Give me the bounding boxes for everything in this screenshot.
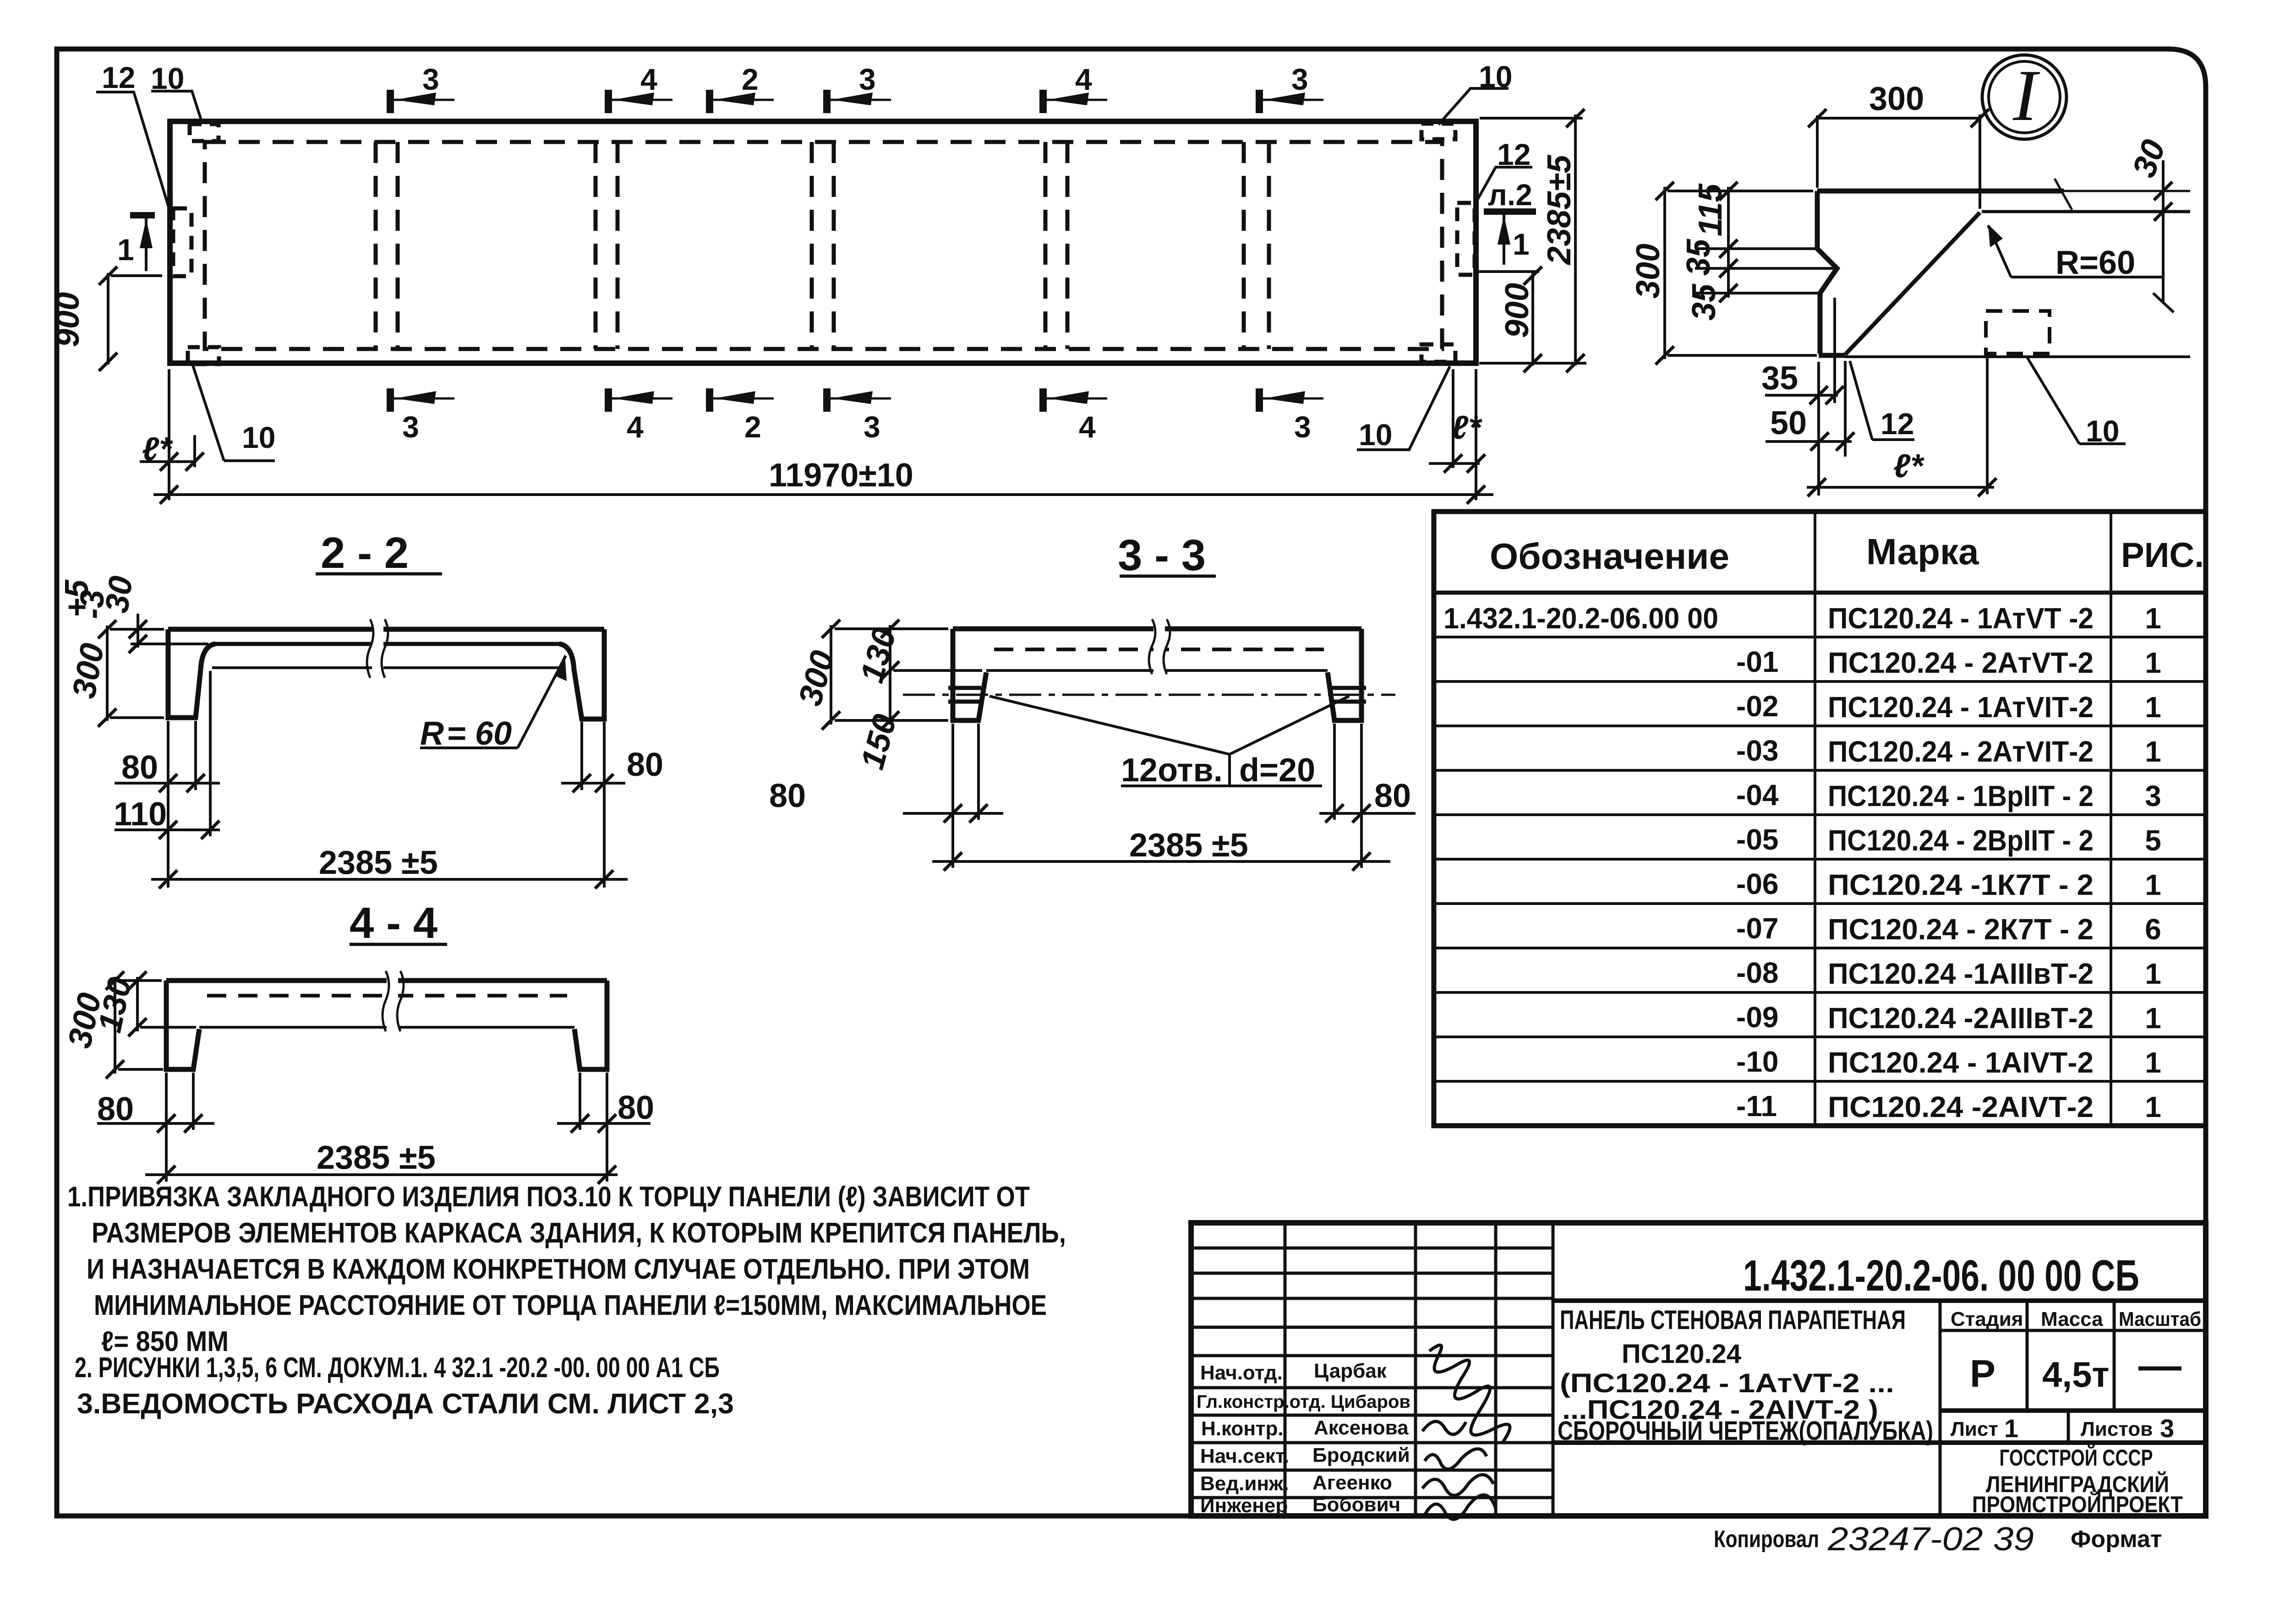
svg-text:5: 5 xyxy=(2145,824,2161,857)
svg-text:12отв.: 12отв. xyxy=(1121,752,1223,789)
svg-text:Обозначение: Обозначение xyxy=(1490,536,1729,577)
svg-text:1: 1 xyxy=(2145,1046,2161,1079)
svg-text:Нач.сект.: Нач.сект. xyxy=(1200,1445,1289,1467)
svg-text:РАЗМЕРОВ ЭЛЕМЕНТОВ КАРКАСА ЗДА: РАЗМЕРОВ ЭЛЕМЕНТОВ КАРКАСА ЗДАНИЯ, К КОТ… xyxy=(92,1217,1066,1249)
svg-text:-11: -11 xyxy=(1736,1090,1777,1123)
svg-text:-09: -09 xyxy=(1736,1001,1779,1034)
svg-text:10: 10 xyxy=(151,61,184,95)
svg-text:3: 3 xyxy=(422,62,439,96)
svg-text:ПС120.24 - 1АтVIТ-2: ПС120.24 - 1АтVIТ-2 xyxy=(1828,691,2094,724)
svg-text:ПС120.24 -1К7Т - 2: ПС120.24 -1К7Т - 2 xyxy=(1828,868,2094,901)
svg-text:ℓ*: ℓ* xyxy=(1893,448,1924,485)
svg-text:4: 4 xyxy=(1075,62,1092,96)
svg-text:23247-02 39: 23247-02 39 xyxy=(1827,1521,2034,1558)
svg-text:R=60: R=60 xyxy=(2055,245,2135,281)
svg-text:ПС120.24 - 1ВрIIТ - 2: ПС120.24 - 1ВрIIТ - 2 xyxy=(1828,779,2094,812)
svg-text:1.432.1-20.2-06. 00 00 СБ: 1.432.1-20.2-06. 00 00 СБ xyxy=(1743,1251,2139,1300)
svg-text:-3: -3 xyxy=(74,590,111,619)
svg-text:-04: -04 xyxy=(1736,779,1779,812)
svg-text:3.ВЕДОМОСТЬ РАСХОДА СТАЛИ СМ.: 3.ВЕДОМОСТЬ РАСХОДА СТАЛИ СМ. ЛИСТ 2,3 xyxy=(77,1388,734,1420)
svg-text:-07: -07 xyxy=(1736,912,1779,945)
svg-text:л.2: л.2 xyxy=(1488,178,1532,212)
svg-text:1: 1 xyxy=(2145,646,2161,679)
svg-text:Листов: Листов xyxy=(2081,1418,2153,1440)
svg-text:900: 900 xyxy=(1499,283,1536,338)
svg-text:1: 1 xyxy=(2145,691,2161,724)
svg-text:10: 10 xyxy=(1359,418,1392,452)
svg-text:3: 3 xyxy=(2160,1414,2174,1443)
svg-text:МИНИМАЛЬНОЕ РАССТОЯНИЕ ОТ ТОРЦ: МИНИМАЛЬНОЕ РАССТОЯНИЕ ОТ ТОРЦА ПАНЕЛИ ℓ… xyxy=(94,1290,1047,1321)
svg-text:Масса: Масса xyxy=(2041,1308,2103,1330)
svg-text:ПС120.24 - 2К7Т - 2: ПС120.24 - 2К7Т - 2 xyxy=(1828,913,2094,946)
svg-text:2. РИСУНКИ 1,3,5, 6 СМ. ДОК: 2. РИСУНКИ 1,3,5, 6 СМ. ДОКУМ.1. 4 32.1 … xyxy=(75,1352,720,1384)
svg-text:80: 80 xyxy=(627,747,663,783)
svg-text:3: 3 xyxy=(1291,62,1308,96)
svg-text:-02: -02 xyxy=(1736,690,1779,723)
svg-text:Бобович: Бобович xyxy=(1312,1493,1400,1516)
svg-text:Стадия: Стадия xyxy=(1951,1308,2023,1330)
svg-text:Р: Р xyxy=(1970,1352,1995,1395)
svg-text:1: 1 xyxy=(2145,602,2161,635)
svg-text:1: 1 xyxy=(1513,227,1530,261)
svg-text:4: 4 xyxy=(640,62,657,96)
svg-text:СБОРОЧНЫЙ ЧЕРТЕЖ(ОПАЛУБКА): СБОРОЧНЫЙ ЧЕРТЕЖ(ОПАЛУБКА) xyxy=(1558,1416,1933,1446)
svg-text:РИС.: РИС. xyxy=(2121,536,2204,575)
svg-text:Н.контр.: Н.контр. xyxy=(1201,1417,1284,1440)
svg-text:1: 1 xyxy=(2004,1414,2018,1443)
svg-text:(ПС120.24 - 1АтVТ-2 ...: (ПС120.24 - 1АтVТ-2 ... xyxy=(1560,1368,1894,1398)
svg-text:ПС120.24 -2АIIIвТ-2: ПС120.24 -2АIIIвТ-2 xyxy=(1828,1002,2094,1035)
svg-text:1: 1 xyxy=(2145,868,2161,901)
svg-text:Царбак: Царбак xyxy=(1314,1360,1387,1382)
svg-text:4 - 4: 4 - 4 xyxy=(350,899,437,948)
svg-text:300: 300 xyxy=(1630,244,1667,299)
svg-text:80: 80 xyxy=(1374,778,1411,814)
svg-text:1.ПРИВЯЗКА ЗАКЛАДНОГО ИЗДЕЛИЯ: 1.ПРИВЯЗКА ЗАКЛАДНОГО ИЗДЕЛИЯ ПОЗ.10 К Т… xyxy=(67,1181,1030,1213)
svg-text:12: 12 xyxy=(1497,137,1531,171)
svg-text:3 - 3: 3 - 3 xyxy=(1118,531,1206,580)
svg-text:1: 1 xyxy=(2145,1002,2161,1035)
svg-text:10: 10 xyxy=(2086,414,2119,448)
svg-text:Аксенова: Аксенова xyxy=(1314,1417,1409,1439)
svg-text:d=20: d=20 xyxy=(1239,752,1315,789)
svg-text:10: 10 xyxy=(242,420,275,454)
svg-text:10: 10 xyxy=(1479,60,1512,93)
svg-text:Инженер: Инженер xyxy=(1200,1494,1288,1517)
svg-text:80: 80 xyxy=(121,749,158,786)
svg-text:Формат: Формат xyxy=(2071,1526,2162,1553)
svg-text:2: 2 xyxy=(742,62,759,96)
svg-text:35: 35 xyxy=(1686,283,1722,321)
svg-text:300: 300 xyxy=(1869,81,1924,117)
svg-text:Нач.отд.: Нач.отд. xyxy=(1200,1362,1283,1384)
svg-text:80: 80 xyxy=(97,1091,134,1128)
svg-text:ПС120.24: ПС120.24 xyxy=(1622,1339,1741,1369)
svg-text:900: 900 xyxy=(49,292,86,347)
svg-text:80: 80 xyxy=(769,778,806,814)
svg-text:ПС120.24 - 2АтVIТ-2: ПС120.24 - 2АтVIТ-2 xyxy=(1828,735,2094,768)
svg-text:1: 1 xyxy=(117,233,134,267)
svg-text:Агеенко: Агеенко xyxy=(1312,1471,1392,1494)
svg-text:Масштаб: Масштаб xyxy=(2119,1308,2201,1330)
svg-text:35: 35 xyxy=(1761,360,1798,397)
svg-text:35: 35 xyxy=(1680,239,1717,276)
svg-text:-01: -01 xyxy=(1736,645,1779,678)
svg-text:ПС120.24 - 1АIVТ-2: ПС120.24 - 1АIVТ-2 xyxy=(1828,1046,2094,1079)
svg-text:12: 12 xyxy=(102,60,135,94)
svg-text:-05: -05 xyxy=(1736,823,1779,856)
svg-text:3: 3 xyxy=(1294,410,1311,444)
svg-text:4: 4 xyxy=(1079,410,1096,444)
svg-text:1: 1 xyxy=(2145,735,2161,768)
svg-text:R = 60: R = 60 xyxy=(420,715,512,752)
svg-text:110: 110 xyxy=(114,796,167,833)
svg-text:Лист: Лист xyxy=(1951,1418,1998,1440)
svg-text:2385±5: 2385±5 xyxy=(1541,154,1578,266)
svg-text:2385 ±5: 2385 ±5 xyxy=(1129,827,1248,864)
svg-text:ПАНЕЛЬ СТЕНОВАЯ ПАРАПЕТНАЯ: ПАНЕЛЬ СТЕНОВАЯ ПАРАПЕТНАЯ xyxy=(1560,1305,1906,1335)
svg-text:ГОССТРОЙ СССР: ГОССТРОЙ СССР xyxy=(2000,1444,2153,1471)
svg-text:-06: -06 xyxy=(1736,867,1779,900)
svg-text:Копировал: Копировал xyxy=(1714,1526,1819,1553)
svg-text:I: I xyxy=(2012,54,2040,136)
svg-text:ℓ*: ℓ* xyxy=(1451,409,1482,446)
svg-text:ℓ*: ℓ* xyxy=(142,431,173,468)
svg-text:ПРОМСТРОЙПРОЕКТ: ПРОМСТРОЙПРОЕКТ xyxy=(1972,1491,2183,1517)
svg-text:2385 ±5: 2385 ±5 xyxy=(319,845,438,881)
svg-text:ПС120.24 -1АIIIвТ-2: ПС120.24 -1АIIIвТ-2 xyxy=(1828,957,2094,990)
svg-text:3: 3 xyxy=(859,62,876,96)
svg-text:ПС120.24 - 2ВрIIТ - 2: ПС120.24 - 2ВрIIТ - 2 xyxy=(1828,824,2094,857)
svg-text:11970±10: 11970±10 xyxy=(769,457,913,494)
svg-text:ПС120.24 - 1АтVТ -2: ПС120.24 - 1АтVТ -2 xyxy=(1828,602,2094,635)
svg-text:И НАЗНАЧАЕТСЯ В КАЖДОМ КОНКРЕТ: И НАЗНАЧАЕТСЯ В КАЖДОМ КОНКРЕТНОМ СЛУЧАЕ… xyxy=(87,1253,1030,1285)
svg-text:4: 4 xyxy=(627,410,644,444)
svg-text:6: 6 xyxy=(2145,913,2161,946)
svg-text:115: 115 xyxy=(1692,183,1729,236)
svg-text:Марка: Марка xyxy=(1866,531,1979,572)
svg-text:-08: -08 xyxy=(1736,956,1779,989)
svg-text:ПС120.24 - 2АтVТ-2: ПС120.24 - 2АтVТ-2 xyxy=(1828,646,2094,679)
svg-text:4,5т: 4,5т xyxy=(2042,1354,2110,1395)
svg-text:1.432.1-20.2-06.00 00: 1.432.1-20.2-06.00 00 xyxy=(1443,602,1718,635)
svg-text:2 - 2: 2 - 2 xyxy=(321,529,409,578)
svg-text:2385 ±5: 2385 ±5 xyxy=(317,1139,436,1176)
svg-text:Гл.констр.отд. Цибаров: Гл.констр.отд. Цибаров xyxy=(1197,1392,1410,1412)
svg-text:-03: -03 xyxy=(1736,734,1779,767)
svg-text:ПС120.24 -2АIVТ-2: ПС120.24 -2АIVТ-2 xyxy=(1828,1090,2094,1123)
svg-text:Вед.инж.: Вед.инж. xyxy=(1200,1472,1289,1495)
svg-text:80: 80 xyxy=(618,1090,654,1126)
svg-text:12: 12 xyxy=(1880,407,1914,441)
svg-text:3: 3 xyxy=(864,410,880,444)
svg-text:3: 3 xyxy=(402,410,419,444)
svg-text:1: 1 xyxy=(2145,957,2161,990)
svg-text:2: 2 xyxy=(744,410,761,444)
svg-text:3: 3 xyxy=(2145,779,2161,812)
svg-text:1: 1 xyxy=(2145,1090,2161,1123)
svg-text:50: 50 xyxy=(1770,405,1807,441)
svg-text:Бродский: Бродский xyxy=(1312,1444,1410,1466)
svg-text:-10: -10 xyxy=(1736,1045,1779,1078)
